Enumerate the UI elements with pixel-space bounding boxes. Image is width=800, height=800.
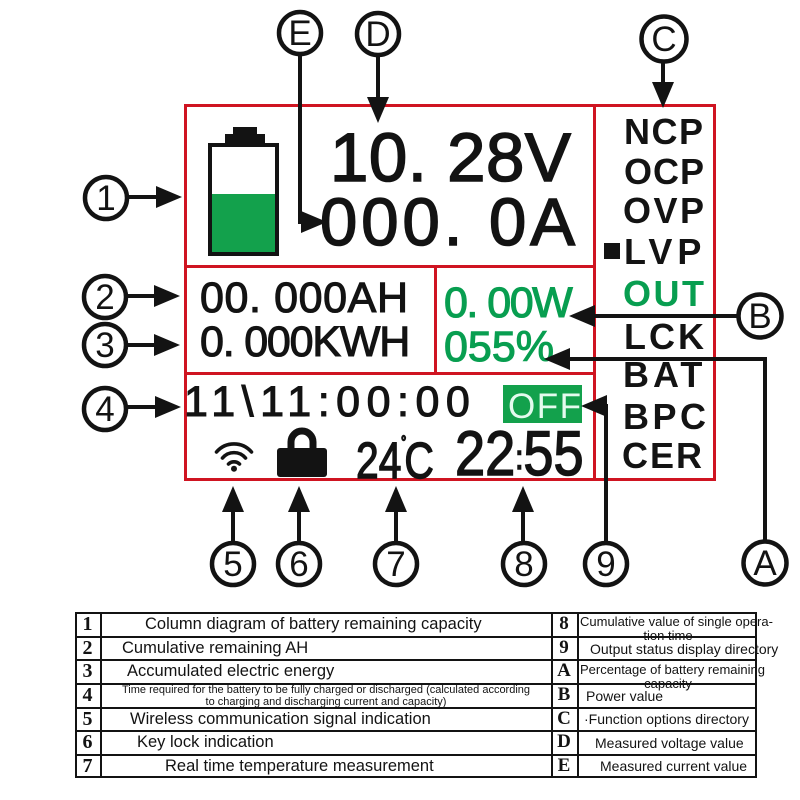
row number 1 (75, 614, 100, 634)
table row line 5 (75, 730, 757, 732)
right column red divider (593, 107, 596, 478)
right status column NCP OCP OVP LVP OUT LCK BAT BPC CER (624, 114, 705, 150)
horizontal red divider middle/bottom (187, 372, 593, 375)
row letter 8 (551, 614, 577, 634)
current value 000.0A (320, 189, 579, 256)
desc row 6 (137, 734, 274, 751)
clock 22:55 (455, 423, 584, 486)
percent value 055% (444, 326, 554, 369)
table row line 6 (75, 754, 757, 756)
power value 0.00W (444, 282, 571, 325)
row number 5 (75, 709, 100, 729)
desc row 3 (127, 663, 334, 680)
table row line 1 (75, 636, 757, 638)
arrow 7 (385, 486, 407, 544)
arrow D (367, 54, 389, 123)
row letter B (551, 685, 577, 705)
svg-text:E: E (288, 14, 311, 53)
horizontal red divider top/middle (187, 265, 593, 268)
table column line after letters (577, 612, 579, 778)
svg-text:7: 7 (386, 545, 405, 584)
svg-text:3: 3 (95, 326, 114, 365)
row letter E (551, 756, 577, 776)
battery icon body (208, 143, 279, 256)
callout circle 6 (278, 543, 320, 585)
row letter D (551, 732, 577, 752)
display panel red outline (184, 104, 716, 481)
callout circle 2 (84, 276, 126, 318)
row letter 9 (551, 638, 577, 658)
svg-text:6: 6 (289, 545, 308, 584)
callout circle 7 (375, 543, 417, 585)
arrow 5 (222, 486, 244, 544)
desc row 5 (130, 711, 431, 728)
arrow 3 (125, 334, 180, 356)
callout circle 1 (85, 177, 127, 219)
svg-text:5: 5 (223, 545, 242, 584)
svg-text:8: 8 (514, 545, 533, 584)
legend table frame (75, 612, 757, 778)
callout circle 8 (503, 543, 545, 585)
callout circle E (279, 12, 321, 54)
desc row B (586, 689, 663, 704)
desc row 8 (overflowing two lines) (580, 615, 756, 642)
wifi icon (214, 439, 254, 472)
desc row 7 (165, 758, 434, 775)
svg-text:9: 9 (596, 545, 615, 584)
LVP selector square (604, 243, 620, 259)
arrow A (544, 348, 765, 542)
desc row 2 (122, 640, 308, 657)
battery icon cap (225, 134, 265, 143)
OFF indicator box (503, 385, 582, 423)
svg-text:D: D (365, 15, 390, 54)
arrow 1 (126, 186, 182, 208)
svg-text:C: C (651, 20, 676, 59)
table row line 2 (75, 659, 757, 661)
svg-text:1: 1 (96, 179, 115, 218)
row number 7 (75, 756, 100, 776)
arrow 2 (125, 285, 180, 307)
desc row C (584, 712, 749, 727)
arrow E (300, 53, 327, 233)
desc row E (600, 759, 747, 774)
table row line 3 (75, 683, 757, 685)
voltage value 10.28V (330, 123, 571, 192)
svg-text:4: 4 (95, 390, 114, 429)
table row line 4 (75, 707, 757, 709)
arrow 8 (512, 486, 534, 544)
svg-text:A: A (753, 544, 777, 583)
arrow 9 (581, 395, 607, 544)
KWH value 0.000KWH (200, 321, 409, 364)
OFF indicator text (508, 389, 582, 424)
arrow 4 (125, 396, 181, 418)
svg-text:2: 2 (95, 278, 114, 317)
arrow 6 (288, 486, 310, 544)
desc row 1 (145, 616, 482, 633)
time row 11\11:00:00 (184, 381, 476, 424)
row letter C (551, 709, 577, 729)
callout circle B (739, 295, 782, 338)
table column line after numbers (100, 612, 102, 778)
desc row 4 (two small lines) (101, 685, 551, 708)
table column line before letters (551, 612, 553, 778)
temperature 24C (356, 435, 434, 486)
svg-text:B: B (748, 297, 771, 336)
row number 2 (75, 638, 100, 658)
callout circle 5 (212, 543, 254, 585)
callout circle A (744, 542, 787, 585)
callout circle D (357, 13, 399, 55)
AH value 00.000AH (200, 277, 409, 320)
callout circle 3 (84, 324, 126, 366)
row number 4 (75, 685, 100, 705)
row letter A (551, 661, 577, 681)
lock icon (276, 426, 328, 478)
callout circle 9 (585, 543, 627, 585)
arrow C (652, 61, 674, 108)
desc row A (overflowing two lines) (580, 663, 756, 690)
battery icon green fill (212, 194, 275, 252)
desc row 9 (590, 642, 778, 657)
vertical red divider in middle row (434, 268, 437, 372)
row number 3 (75, 661, 100, 681)
desc row D (595, 736, 744, 751)
arrow B (569, 305, 739, 327)
callout circle C (642, 17, 687, 62)
callout circle 4 (84, 388, 126, 430)
row number 6 (75, 732, 100, 752)
